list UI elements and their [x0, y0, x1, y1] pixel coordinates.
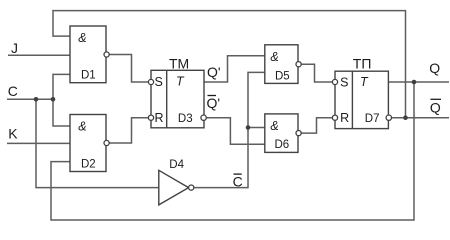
- svg-text:Q: Q: [429, 60, 440, 76]
- svg-text:D7: D7: [365, 113, 380, 125]
- svg-text:D4: D4: [169, 159, 184, 171]
- svg-text:C: C: [8, 83, 18, 99]
- svg-text:J: J: [11, 40, 18, 56]
- svg-text:D3: D3: [178, 113, 193, 125]
- svg-text:D6: D6: [275, 139, 290, 151]
- svg-text:ТМ: ТМ: [169, 55, 189, 71]
- svg-text:S: S: [155, 75, 163, 89]
- svg-text:R: R: [340, 111, 349, 125]
- svg-text:ТП: ТП: [353, 55, 372, 71]
- svg-text:D5: D5: [275, 70, 290, 82]
- svg-text:&: &: [270, 119, 278, 133]
- svg-text:Q': Q': [207, 64, 221, 80]
- svg-text:Q': Q': [207, 95, 221, 111]
- svg-text:Q: Q: [430, 100, 441, 116]
- svg-text:D2: D2: [81, 159, 96, 171]
- svg-text:S: S: [340, 75, 348, 89]
- svg-text:R: R: [155, 111, 164, 125]
- svg-text:D1: D1: [81, 70, 96, 82]
- svg-text:K: K: [8, 126, 18, 142]
- svg-text:&: &: [78, 119, 86, 133]
- svg-text:C: C: [233, 174, 243, 190]
- svg-text:&: &: [270, 50, 278, 64]
- svg-text:&: &: [78, 31, 86, 45]
